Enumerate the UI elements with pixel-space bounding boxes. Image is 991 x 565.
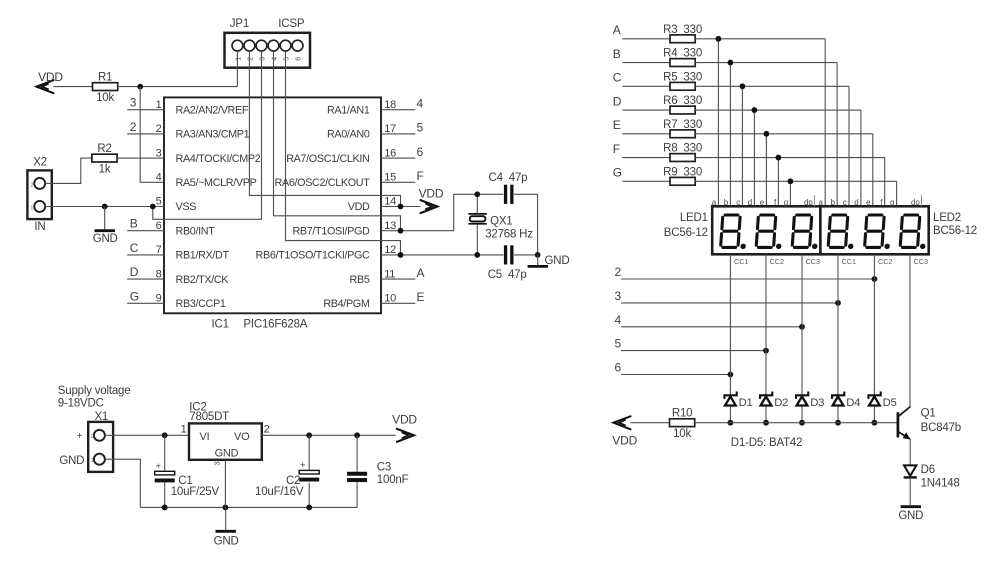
svg-text:1: 1 — [181, 423, 187, 435]
svg-text:D1-D5: BAT42: D1-D5: BAT42 — [731, 437, 803, 449]
node net 6 row — [615, 361, 731, 375]
resistor R4 330 — [663, 48, 702, 67]
svg-text:VSS: VSS — [176, 201, 197, 213]
svg-text:PIC16F628A: PIC16F628A — [243, 319, 307, 331]
svg-text:RB5: RB5 — [350, 274, 370, 286]
svg-text:RB1/RX/DT: RB1/RX/DT — [176, 250, 230, 262]
pin CC1 of LED1 — [734, 257, 748, 266]
svg-text:R7 330: R7 330 — [663, 119, 702, 131]
wire JP1 pin1 to MCLR rail — [236, 51, 238, 87]
diode D6 1N4148 — [904, 464, 960, 490]
wire JP1 pin2 to IC pin14 VDD — [249, 51, 400, 207]
svg-text:A: A — [417, 266, 425, 280]
wire R5 to LED pins — [695, 86, 849, 206]
node net 2 at IC pin 2 — [127, 120, 164, 134]
node net B ladder row — [613, 47, 671, 63]
svg-text:5: 5 — [284, 57, 291, 61]
svg-text:5: 5 — [615, 337, 622, 351]
diode D2 BAT42 — [760, 392, 788, 409]
svg-text:16: 16 — [384, 147, 396, 159]
svg-text:7805DT: 7805DT — [189, 411, 229, 423]
svg-text:VI: VI — [200, 431, 210, 443]
svg-text:D: D — [130, 265, 139, 279]
node net 5 row — [615, 337, 767, 351]
svg-text:4: 4 — [417, 97, 424, 111]
svg-text:d: d — [854, 198, 858, 207]
node net F ladder row — [613, 142, 671, 158]
svg-text:C: C — [613, 71, 622, 85]
svg-text:RA6/OSC2/CLKOUT: RA6/OSC2/CLKOUT — [275, 177, 371, 189]
node junction D4 rail — [835, 420, 841, 426]
wire CC2 vertical to diode D5 — [873, 254, 875, 422]
svg-text:5: 5 — [417, 121, 424, 135]
node net 2 row — [615, 265, 875, 279]
svg-text:1: 1 — [156, 99, 162, 111]
resistor R5 330 — [663, 71, 702, 90]
node junction D5 rail — [872, 420, 878, 426]
node C1 top junction — [162, 432, 168, 438]
svg-text:6: 6 — [417, 145, 424, 159]
svg-text:3: 3 — [615, 289, 622, 303]
svg-text:3: 3 — [130, 96, 137, 110]
wire IC2 VO to VDD — [262, 434, 396, 436]
wire X1 pin2 to IC2 VI — [105, 434, 189, 436]
node C2 bottom junction — [306, 505, 312, 511]
node junction E to LED1 — [764, 131, 770, 137]
pin 5 VSS — [156, 196, 197, 214]
svg-text:QX1: QX1 — [490, 216, 512, 228]
ground symbol at Q1 — [901, 505, 921, 508]
pin 9 RB3/CCP1 — [156, 293, 226, 311]
svg-text:GND: GND — [545, 255, 570, 267]
svg-text:RA1/AN1: RA1/AN1 — [327, 104, 370, 116]
node net E ladder row — [613, 118, 671, 134]
power symbol VDD (bottom) — [612, 416, 637, 447]
node net 5 at IC pin 17 — [381, 121, 424, 135]
svg-text:GND: GND — [898, 510, 923, 522]
svg-text:10uF/25V: 10uF/25V — [171, 486, 220, 498]
pin 16 RA7/OSC1/CLKIN — [286, 147, 396, 165]
svg-text:RA2/AN2/VREF: RA2/AN2/VREF — [176, 104, 249, 116]
svg-text:+: + — [156, 461, 161, 471]
node net G at IC pin 9 — [127, 289, 164, 303]
svg-text:GND: GND — [214, 536, 239, 548]
wire X2 pin1 to IC pin 5 VSS — [45, 206, 164, 208]
node net F at IC pin 15 — [381, 169, 424, 183]
svg-text:1: 1 — [91, 458, 94, 464]
svg-text:6: 6 — [296, 57, 303, 61]
svg-text:9-18VDC: 9-18VDC — [58, 397, 104, 409]
svg-text:D3: D3 — [810, 397, 824, 409]
node net C at IC pin 7 — [127, 241, 164, 255]
resistor R10 10k — [670, 408, 695, 440]
node IC2 GND junction — [223, 505, 229, 511]
node net 3 row — [615, 289, 839, 303]
svg-text:R2: R2 — [97, 143, 111, 155]
display digit 1 — [720, 215, 748, 249]
svg-text:4: 4 — [156, 172, 162, 184]
node net A ladder row — [613, 23, 671, 39]
node C3 top junction — [354, 432, 360, 438]
svg-text:R5 330: R5 330 — [663, 71, 702, 83]
svg-text:2: 2 — [615, 265, 622, 279]
svg-text:R3 330: R3 330 — [663, 24, 702, 36]
svg-text:2: 2 — [264, 423, 270, 435]
svg-text:1: 1 — [236, 57, 243, 61]
svg-text:R10: R10 — [672, 408, 693, 420]
svg-text:BC847b: BC847b — [921, 422, 961, 434]
node junction 5 — [763, 348, 769, 354]
svg-text:D6: D6 — [921, 464, 935, 476]
node junction 2 — [872, 276, 878, 282]
svg-text:14: 14 — [384, 196, 396, 208]
node junction D to LED1 — [752, 107, 758, 113]
wire JP1 pin4 to IC pin13 PGD — [274, 51, 401, 231]
svg-text:13: 13 — [384, 220, 396, 232]
svg-text:RB6/T1OSO/T1CKI/PGC: RB6/T1OSO/T1CKI/PGC — [256, 250, 370, 262]
svg-text:GND: GND — [93, 233, 118, 245]
svg-text:CC2: CC2 — [878, 257, 892, 266]
svg-text:5: 5 — [156, 196, 162, 208]
node junction D3 rail — [799, 420, 805, 426]
svg-text:1k: 1k — [99, 163, 111, 175]
node junction G to LED1 — [788, 178, 794, 184]
ground symbol below IC2 — [216, 507, 236, 531]
node pin13 junction — [398, 228, 404, 234]
svg-text:2: 2 — [248, 57, 255, 61]
svg-text:RB4/PGM: RB4/PGM — [323, 298, 370, 310]
resistor R7 330 — [663, 119, 702, 138]
node junction C to LED1 — [740, 83, 746, 89]
svg-text:X2: X2 — [33, 156, 47, 168]
svg-text:3: 3 — [156, 147, 162, 159]
transistor Q1 BC847b — [898, 407, 961, 440]
power symbol VDD (supply) — [392, 413, 417, 442]
svg-text:G: G — [613, 166, 622, 180]
node C2 top junction — [306, 432, 312, 438]
diode D5 BAT42 — [868, 392, 896, 409]
svg-text:dp: dp — [804, 198, 813, 207]
capacitor C4 47p — [489, 172, 528, 204]
crystal QX1 32768 Hz — [468, 194, 533, 255]
wire VDD to R1 — [54, 86, 93, 88]
svg-text:dp: dp — [911, 198, 920, 207]
connector X1 — [88, 422, 113, 472]
resistor R6 330 — [663, 95, 702, 114]
svg-text:GND: GND — [59, 455, 84, 467]
wire R9 to LED pins — [695, 181, 896, 206]
pin 1 RA2/AN2/VREF — [156, 99, 249, 117]
node net 3 at IC pin 1 — [127, 96, 164, 110]
node net 4 row — [615, 313, 803, 327]
wire X1 pin1 GND down — [105, 459, 140, 507]
diode D1 BAT42 — [724, 392, 752, 409]
node net A at IC pin 11 — [381, 266, 425, 280]
svg-text:LED1: LED1 — [680, 212, 708, 224]
node junction 6 — [728, 372, 734, 378]
pin 10 RB4/PGM — [323, 293, 396, 311]
svg-text:B: B — [130, 217, 138, 231]
wire D6 to GND — [909, 478, 911, 507]
svg-text:BC56-12: BC56-12 — [933, 225, 977, 237]
svg-text:C3: C3 — [377, 462, 391, 474]
svg-text:C5 47p: C5 47p — [488, 269, 527, 281]
node junction 4 — [799, 324, 805, 330]
svg-text:2: 2 — [30, 182, 33, 188]
svg-text:B: B — [613, 47, 621, 61]
diode D3 BAT42 — [796, 392, 824, 409]
connector JP1 ICSP box — [225, 33, 311, 68]
svg-text:7: 7 — [156, 244, 162, 256]
svg-text:CC3: CC3 — [914, 257, 928, 266]
node net G ladder row — [613, 166, 671, 182]
wire R3 to LED pins — [695, 39, 825, 207]
wire crystal right vertical — [537, 194, 539, 255]
pin 14 VDD — [348, 196, 396, 214]
svg-text:RB2/TX/CK: RB2/TX/CK — [176, 274, 230, 286]
svg-text:ICSP: ICSP — [278, 18, 305, 30]
svg-text:IN: IN — [34, 221, 45, 233]
svg-text:10uF/16V: 10uF/16V — [255, 486, 304, 498]
svg-text:R6 330: R6 330 — [663, 95, 702, 107]
node net D ladder row — [613, 94, 671, 110]
svg-text:A: A — [613, 23, 621, 37]
resistor R2 1k — [92, 143, 117, 175]
power symbol VDD at pin14 — [419, 187, 444, 213]
svg-text:CC1: CC1 — [734, 257, 748, 266]
pin CC3 of LED2 — [914, 257, 928, 266]
svg-text:a: a — [819, 198, 824, 207]
pin CC2 of LED1 — [770, 257, 784, 266]
svg-text:CC1: CC1 — [842, 257, 856, 266]
wire supply ground rail — [140, 506, 357, 508]
pin 6 RB0/INT — [156, 220, 216, 238]
svg-text:D4: D4 — [846, 397, 860, 409]
node crystal top junction — [474, 191, 480, 197]
svg-text:C: C — [130, 241, 139, 255]
resistor R1 10k — [93, 72, 118, 104]
svg-text:R9 330: R9 330 — [663, 166, 702, 178]
display LED2 BC56-12 box — [820, 206, 928, 254]
svg-text:F: F — [613, 142, 620, 156]
svg-text:e: e — [760, 198, 765, 207]
svg-text:10k: 10k — [96, 92, 114, 104]
wire R7 to LED pins — [695, 134, 873, 207]
svg-text:b: b — [830, 198, 835, 207]
svg-text:17: 17 — [384, 123, 396, 135]
svg-text:E: E — [613, 118, 621, 132]
pin 18 RA1/AN1 — [327, 99, 396, 117]
svg-text:D: D — [613, 94, 622, 108]
wire R6 to LED pins — [695, 110, 861, 206]
wire CC1 vertical to diode D4 — [837, 254, 839, 422]
ground symbol at crystal — [528, 255, 548, 267]
node crystal bottom junction — [474, 252, 480, 258]
svg-text:RB3/CCP1: RB3/CCP1 — [176, 298, 226, 310]
svg-text:VDD: VDD — [612, 434, 637, 448]
wire R8 to LED pins — [695, 158, 885, 207]
wire IC pin12 crystal bottom rail — [381, 254, 538, 256]
label Supply voltage 9-18VDC — [58, 385, 131, 409]
svg-text:10: 10 — [384, 293, 396, 305]
svg-text:D5: D5 — [883, 397, 897, 409]
svg-text:RB7/T1OSI/PGD: RB7/T1OSI/PGD — [292, 225, 370, 237]
display LED1 BC56-12 box — [712, 206, 820, 254]
wire IC pin13 to crystal top rail — [381, 194, 538, 230]
wire CC1 vertical to diode D1 — [729, 254, 731, 422]
wire CC3 vertical to diode D3 — [801, 254, 803, 422]
svg-text:+: + — [300, 460, 305, 470]
svg-text:1N4148: 1N4148 — [921, 477, 960, 489]
svg-text:X1: X1 — [94, 411, 108, 423]
pin 12 RB6/T1OSO/T1CKI/PGC — [256, 244, 397, 262]
wire X2 pin2 to R2 — [45, 158, 92, 183]
power symbol VDD (top left) — [37, 70, 64, 93]
svg-text:VO: VO — [234, 431, 250, 443]
pin 3 RA4/TOCKI/CMP2 — [156, 147, 261, 165]
pin 15 RA6/OSC2/CLKOUT — [275, 172, 397, 190]
capacitor C3 100nF — [347, 435, 408, 507]
display digit 2 — [756, 215, 784, 249]
svg-text:GND: GND — [215, 447, 239, 459]
node C1 bottom junction — [162, 505, 168, 511]
node net 4 at IC pin 18 — [381, 97, 424, 111]
svg-text:c: c — [843, 198, 847, 207]
svg-text:e: e — [866, 198, 871, 207]
regulator IC2 7805DT body — [189, 423, 262, 459]
pin letters a-g dp LED2 — [819, 195, 922, 207]
svg-text:g: g — [890, 198, 894, 207]
svg-text:RB0/INT: RB0/INT — [176, 225, 216, 237]
wire MCLR node to pin 4 RA5 — [140, 87, 164, 183]
svg-text:IC1: IC1 — [212, 319, 229, 331]
svg-text:D2: D2 — [774, 397, 788, 409]
svg-text:CC2: CC2 — [770, 257, 784, 266]
pin 7 RB1/RX/DT — [156, 244, 230, 262]
wire R4 to LED pins — [695, 63, 837, 207]
node pin12 junction — [398, 252, 404, 258]
diode D4 BAT42 — [832, 392, 860, 409]
node junction F to LED1 — [776, 155, 782, 161]
svg-text:2: 2 — [156, 123, 162, 135]
svg-text:RA4/TOCKI/CMP2: RA4/TOCKI/CMP2 — [176, 153, 261, 165]
svg-text:10k: 10k — [673, 428, 691, 440]
svg-text:LED2: LED2 — [933, 212, 961, 224]
wire JP1 pin5 to IC pin12 PGC — [286, 51, 401, 255]
svg-text:9: 9 — [156, 293, 162, 305]
pin 17 RA0/AN0 — [327, 123, 396, 141]
svg-text:VDD: VDD — [419, 187, 444, 201]
node MCLR junction — [137, 84, 143, 90]
wire JP1 pin3 to VSS node — [153, 51, 262, 219]
svg-text:E: E — [417, 290, 425, 304]
svg-text:C4 47p: C4 47p — [489, 172, 528, 184]
svg-text:d: d — [748, 198, 752, 207]
capacitor C5 47p — [488, 245, 527, 281]
node net B at IC pin 6 — [127, 217, 164, 231]
svg-text:RA0/AN0: RA0/AN0 — [327, 129, 370, 141]
svg-text:4: 4 — [615, 313, 622, 327]
wire CC2 vertical to diode D2 — [765, 254, 767, 422]
pin CC1 of LED2 — [842, 257, 856, 266]
svg-text:RA5/~MCLR/VPP: RA5/~MCLR/VPP — [176, 177, 257, 189]
svg-text:G: G — [130, 289, 139, 303]
svg-text:R8 330: R8 330 — [663, 143, 702, 155]
wire R10 to Q1 base rail — [695, 422, 897, 424]
svg-text:JP1: JP1 — [230, 18, 249, 30]
node net D at IC pin 8 — [127, 265, 164, 279]
svg-text:4: 4 — [272, 57, 279, 61]
svg-text:RA7/OSC1/CLKIN: RA7/OSC1/CLKIN — [286, 153, 369, 165]
svg-text:RA3/AN3/CMP1: RA3/AN3/CMP1 — [176, 129, 250, 141]
pin 13 RB7/T1OSI/PGD — [292, 220, 396, 238]
svg-text:2: 2 — [91, 434, 94, 440]
svg-text:D1: D1 — [739, 397, 753, 409]
node GND tap on VSS wire — [102, 204, 108, 210]
wire CC3 LED2 to Q1 collector — [909, 254, 911, 407]
svg-text:3: 3 — [260, 57, 267, 61]
svg-text:8: 8 — [156, 268, 162, 280]
node net E at IC pin 10 — [381, 290, 425, 304]
svg-text:Supply voltage: Supply voltage — [58, 385, 131, 397]
wire R1 to MCLR node — [118, 86, 238, 88]
op IC1 PIC16F628A body — [164, 97, 381, 313]
svg-text:6: 6 — [156, 220, 162, 232]
svg-text:11: 11 — [384, 268, 395, 280]
svg-text:c: c — [736, 198, 740, 207]
svg-text:BC56-12: BC56-12 — [664, 227, 708, 239]
resistor R8 330 — [663, 143, 702, 162]
display digit 3 — [792, 215, 820, 249]
node net C ladder row — [613, 71, 671, 87]
svg-text:a: a — [712, 198, 717, 207]
svg-text:6: 6 — [615, 361, 622, 375]
pin 2 RA3/AN3/CMP1 — [156, 123, 250, 141]
node net 6 at IC pin 16 — [381, 145, 424, 159]
svg-text:18: 18 — [384, 99, 396, 111]
node junction D2 rail — [763, 420, 769, 426]
ground symbol near X2 — [95, 207, 115, 231]
wire IC pin14 to VDD arrow — [381, 206, 421, 208]
wire VDD to R10 — [631, 422, 670, 424]
pin 8 RB2/TX/CK — [156, 268, 230, 286]
svg-text:b: b — [724, 198, 729, 207]
svg-text:100nF: 100nF — [377, 474, 409, 486]
resistor R3 330 — [663, 24, 702, 43]
svg-text:VDD: VDD — [392, 413, 417, 427]
svg-text:12: 12 — [384, 244, 396, 256]
node junction D1 rail — [728, 420, 734, 426]
node junction A to LED1 — [716, 36, 722, 42]
svg-text:2: 2 — [130, 120, 137, 134]
wire Q1 emitter to D6 — [909, 439, 911, 466]
connector X2 — [27, 170, 51, 219]
pin 4 RA5/~MCLR/VPP — [156, 172, 257, 190]
wire IC2 GND pin down — [224, 460, 226, 508]
svg-text:VDD: VDD — [38, 70, 63, 84]
pin CC2 of LED2 — [878, 257, 892, 266]
display digit 4 — [828, 215, 856, 249]
node C5 gnd junction — [535, 252, 541, 258]
svg-text:Q1: Q1 — [921, 407, 936, 419]
svg-text:+: + — [77, 431, 83, 442]
svg-text:g: g — [784, 198, 788, 207]
svg-text:F: F — [417, 169, 424, 183]
pin letters a-g dp LED1 — [712, 195, 815, 207]
svg-text:3: 3 — [213, 461, 222, 465]
svg-text:R4 330: R4 330 — [663, 48, 702, 60]
node VSS junction — [150, 204, 156, 210]
